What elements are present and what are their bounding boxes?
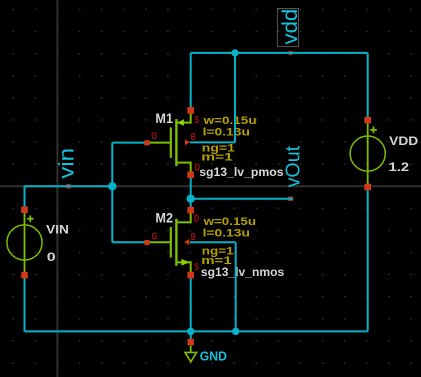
svg-text:l=0.13u: l=0.13u [203,228,250,240]
svg-text:VIN: VIN [46,222,69,236]
svg-text:D: D [194,213,200,224]
svg-text:G: G [152,231,158,242]
svg-text:S: S [194,262,199,273]
svg-text:vin: vin [55,148,79,179]
svg-text:VDD: VDD [389,134,418,148]
svg-text:sg13_lv_pmos: sg13_lv_pmos [199,165,284,179]
svg-text:m=1: m=1 [201,152,233,164]
svg-text:vOut: vOut [281,146,304,188]
svg-text:0: 0 [47,250,56,264]
svg-text:1.2: 1.2 [389,160,410,174]
svg-text:w=0.15u: w=0.15u [202,216,256,228]
svg-text:GND: GND [200,348,227,363]
svg-text:S: S [194,115,199,126]
svg-text:M2: M2 [155,211,173,226]
svg-text:l=0.13u: l=0.13u [203,127,250,139]
svg-text:m=1: m=1 [201,255,231,267]
svg-text:w=0.15u: w=0.15u [202,115,256,127]
svg-text:D: D [195,162,201,173]
svg-text:B: B [191,132,196,143]
svg-text:G: G [151,131,157,142]
svg-text:M1: M1 [155,111,173,126]
